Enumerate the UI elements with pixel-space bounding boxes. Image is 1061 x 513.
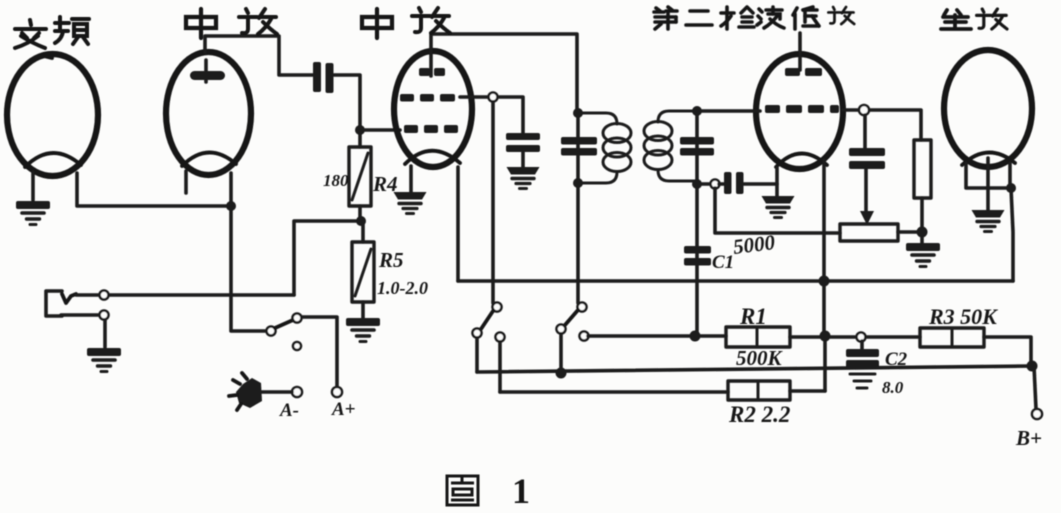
wire V4 plate lead to bus xyxy=(822,160,826,281)
node pot resistor junction xyxy=(917,227,928,238)
resistor plate load body xyxy=(914,140,931,198)
node volume tap terminal xyxy=(711,180,720,189)
svg-text:R2 2.2: R2 2.2 xyxy=(728,402,790,427)
wire B plus drop xyxy=(1034,366,1036,409)
resistor R2 body xyxy=(728,381,790,400)
coil IFT secondary xyxy=(644,111,697,181)
node AF coupling terminal xyxy=(859,105,869,115)
node IFT secondary bottom xyxy=(692,179,702,189)
wire AF cap top stub xyxy=(863,115,867,148)
tube V1 cathode xyxy=(25,153,81,167)
wire V2 top lead xyxy=(204,60,208,82)
wire R3 right to B plus xyxy=(984,337,1031,366)
wire V4 cathode lead xyxy=(775,168,779,196)
wire bus drop to R2 xyxy=(824,281,825,391)
wire R2 right up to junction xyxy=(790,389,825,393)
jack frame xyxy=(46,291,62,316)
node grid V3 junction xyxy=(355,125,365,135)
caption figure box xyxy=(447,476,478,505)
wire V1 plate lead to bus xyxy=(77,173,231,206)
wire S2 second contact to R2 line xyxy=(498,342,502,392)
switch S3 top contact xyxy=(578,303,587,312)
svg-text:R5: R5 xyxy=(378,248,404,272)
capacitor IFT secondary plates xyxy=(680,137,714,156)
capacitor C2 plates xyxy=(846,349,879,368)
wire V2 cathode lead down xyxy=(231,173,267,331)
node B plus junction xyxy=(1027,361,1038,372)
node V4 plate bus junction xyxy=(819,276,830,287)
wire V3 cathode lead xyxy=(409,166,413,192)
svg-text:C2: C2 xyxy=(885,349,908,370)
battery clip symbol xyxy=(229,373,262,410)
wire V1 cathode lead xyxy=(31,172,35,200)
wire cap to V4 cathode xyxy=(743,182,777,186)
potentiometer 5000 body xyxy=(840,224,898,241)
wire coupling cap to grid node xyxy=(334,75,360,130)
wire V3 top plate lead xyxy=(431,34,577,110)
jack spring contact xyxy=(62,294,76,303)
ground under V3 xyxy=(394,192,427,214)
wire V5 plate line down to bus xyxy=(1011,188,1013,281)
svg-text:180: 180 xyxy=(323,171,349,190)
tube V5 output envelope xyxy=(944,50,1032,167)
switch S1 filament contact xyxy=(267,327,276,336)
wire jack tip line to R5 branch xyxy=(109,293,294,297)
wire R5 bottom stub xyxy=(361,302,365,318)
svg-text:R1: R1 xyxy=(739,304,767,329)
wire jack tip line xyxy=(76,293,99,297)
svg-text:1.0-2.0: 1.0-2.0 xyxy=(377,278,428,298)
node IFT secondary top xyxy=(692,106,702,116)
switch S3 lever xyxy=(565,310,578,325)
wire S1 to A+ terminal xyxy=(302,317,337,387)
node IFT primary top xyxy=(573,108,583,118)
svg-text:A-: A- xyxy=(279,400,299,421)
wire S3 contact down xyxy=(559,334,563,373)
svg-text:R3 50K: R3 50K xyxy=(928,304,998,329)
wire R2 feed line xyxy=(500,390,728,394)
wire R4 bottom to junction xyxy=(358,206,362,221)
label stage2 IF amp xyxy=(186,9,277,38)
ground under pot junction xyxy=(906,243,940,267)
wire volume line to pot xyxy=(715,188,840,233)
svg-text:A+: A+ xyxy=(331,399,356,420)
node S3 on long line xyxy=(556,368,567,379)
wire jack sleeve line xyxy=(61,313,99,317)
switch S1 lever xyxy=(275,320,293,328)
svg-text:R4: R4 xyxy=(372,172,398,196)
tube V2 cathode xyxy=(182,152,236,166)
wire junction to jack line xyxy=(294,221,361,295)
svg-text:1: 1 xyxy=(512,471,530,511)
switch S2 bottom contact xyxy=(473,329,482,338)
ground under V4 cathode xyxy=(762,196,795,218)
wire V4 grid to plate resistor xyxy=(843,110,921,140)
node jack sleeve terminal xyxy=(100,311,109,320)
capacitor screen bypass plates xyxy=(506,133,540,152)
svg-text:B+: B+ xyxy=(1015,426,1042,450)
node C2 terminal xyxy=(857,333,866,342)
wire AVC line down to switch xyxy=(491,102,495,303)
label stage4 second detector AF amp xyxy=(654,7,819,29)
tube V4 grid dashes xyxy=(765,105,839,113)
tube V3 plate bar xyxy=(419,68,445,76)
svg-text:C1: C1 xyxy=(712,252,734,273)
wire secondary top to V4 grid xyxy=(697,109,760,113)
node jack tip terminal xyxy=(100,291,109,300)
wire C2 node to R3 xyxy=(866,335,920,339)
node A+ terminal xyxy=(332,387,342,397)
ground under V5 xyxy=(972,210,1005,232)
resistor R5 body xyxy=(352,242,374,302)
node B plus terminal xyxy=(1032,409,1042,419)
tube V4 plate bar xyxy=(785,68,822,76)
tube V3 IF2 envelope xyxy=(394,51,472,167)
tube V4 detector envelope xyxy=(756,54,843,169)
switch S1 spare contact xyxy=(293,342,301,350)
wire B+ bus xyxy=(458,279,1013,283)
ground under V1 xyxy=(16,201,50,225)
ground under bypass cap xyxy=(507,167,540,189)
capacitor IFT primary plates xyxy=(561,137,597,156)
wire tap circle to cap xyxy=(719,182,724,186)
node R4 R5 junction xyxy=(356,216,366,226)
pot wiper arrow xyxy=(860,211,874,225)
wire V3 plate lead down to bus xyxy=(456,167,460,281)
capacitor AF coupling plates xyxy=(849,148,885,169)
label stage5 fang char xyxy=(977,9,1007,29)
label stage4 fang char xyxy=(828,7,854,24)
wire detector cathode line xyxy=(697,182,709,186)
wire V4 grid cap stub xyxy=(798,33,802,70)
label stage3 IF amp xyxy=(362,8,450,38)
tube V5 cathode xyxy=(962,152,1015,165)
switch S2 top contact xyxy=(493,303,502,312)
node IFT primary bottom xyxy=(573,178,583,188)
node V5 base corner xyxy=(1006,183,1016,193)
node A- terminal xyxy=(292,387,302,397)
wire IFT primary to switch S3 xyxy=(576,183,580,303)
coil IFT primary xyxy=(578,113,631,183)
tube V3 screen grid dashes xyxy=(400,94,455,102)
capacitor grid leak plates xyxy=(724,172,744,194)
wire grid node to V3 xyxy=(360,128,400,132)
capacitor C1 plates xyxy=(684,246,711,266)
svg-text:500K: 500K xyxy=(736,346,784,370)
wire IFT secondary line xyxy=(695,111,699,184)
node V3 screen terminal xyxy=(489,93,498,102)
switch S2 lever xyxy=(481,311,493,329)
svg-text:8.0: 8.0 xyxy=(882,378,904,397)
resistor R3 body xyxy=(920,328,984,347)
wire V5 center lead xyxy=(986,158,990,210)
resistor R4 body xyxy=(349,147,371,206)
tube V5 base box xyxy=(966,163,1010,188)
wire V2 filament stub xyxy=(184,171,188,193)
tube V1 converter envelope xyxy=(7,54,98,176)
wire R5 top stub xyxy=(361,221,365,242)
svg-text:5000: 5000 xyxy=(732,230,777,259)
node R1 R3 bus junction xyxy=(820,331,831,342)
resistor R1 body xyxy=(726,327,790,347)
node R1 left junction xyxy=(690,331,701,342)
wire bypass cap to ground xyxy=(521,152,525,167)
ground under R5 xyxy=(346,318,380,342)
wire V2 plate top wire xyxy=(205,36,313,75)
wire long line to B plus xyxy=(477,366,1033,372)
wire secondary bottom down through C1 xyxy=(695,184,699,336)
wire plate resistor bottom xyxy=(920,198,924,243)
switch S3 feed contact xyxy=(580,332,589,341)
wire AVC feed to R1 xyxy=(588,334,726,338)
wire screen node to bypass cap xyxy=(460,97,523,133)
tube V3 control grid dashes xyxy=(404,125,458,133)
wire IFT primary line xyxy=(576,113,580,183)
wire R4 top stub xyxy=(358,130,362,147)
tube V2 IF1 envelope xyxy=(166,52,251,175)
wire AF cap to pot wiper xyxy=(864,169,868,214)
wire pot right to junction xyxy=(898,230,922,234)
ground under jack xyxy=(87,348,121,372)
tube V3 cathode xyxy=(405,151,460,164)
wire jack sleeve to ground xyxy=(103,320,107,347)
label stage1 converter xyxy=(15,17,89,48)
switch S1 second contact xyxy=(293,314,302,323)
tube V2 plate bar xyxy=(190,71,225,80)
wire R1 right xyxy=(790,335,855,339)
wire S2 to long line xyxy=(475,338,479,372)
wire C2 stub xyxy=(860,341,864,350)
wire A- lead xyxy=(260,390,292,394)
ground under C2 xyxy=(850,374,875,388)
capacitor coupling C plates xyxy=(313,62,334,93)
label stage5 output amp xyxy=(941,10,971,29)
node V1-V2 cathode junction xyxy=(226,201,236,211)
tube V4 cathode xyxy=(776,153,827,167)
switch S2 second contact xyxy=(496,333,505,342)
switch S3 bottom contact xyxy=(557,325,566,334)
